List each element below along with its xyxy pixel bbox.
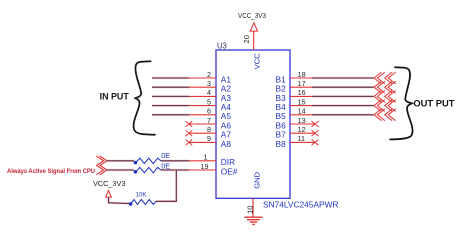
svg-text:14: 14 (298, 107, 306, 116)
pin 17 (B2) stub (276, 79, 313, 94)
wire net to B1 (312, 77, 374, 79)
brace grouping output nets (390, 67, 412, 139)
svg-text:19: 19 (201, 162, 209, 171)
wire 0E resistor to pin (OE#) (161, 169, 189, 171)
svg-text:6: 6 (207, 107, 211, 116)
pin 1 (DIR) stub (189, 153, 236, 168)
svg-text:15: 15 (298, 97, 306, 106)
pin 5 (A4) stub (189, 97, 232, 112)
label IN PUT (100, 92, 129, 103)
pin 4 (A3) stub (189, 88, 232, 103)
pin 15 (B4) stub (276, 97, 313, 112)
wire net to B2 (312, 86, 374, 88)
svg-text:7: 7 (207, 116, 211, 125)
svg-text:VCC_3V3: VCC_3V3 (93, 179, 125, 188)
wire chevron to 0E resistor (OE#) (107, 169, 134, 171)
wire net to A2 (152, 86, 189, 88)
power symbol VCC_3V3 (top) (238, 11, 266, 31)
svg-text:Always Active Signal From CPU: Always Active Signal From CPU (7, 168, 95, 175)
svg-text:11: 11 (298, 134, 305, 143)
svg-text:10K: 10K (136, 191, 147, 198)
wire net to A1 (152, 77, 189, 79)
wire net to B3 (312, 95, 374, 97)
wire 0E resistor to pin (DIR) (161, 160, 189, 162)
label OUT PUT (413, 99, 454, 110)
svg-text:5: 5 (207, 97, 211, 106)
ground symbol (244, 217, 262, 224)
part number SN74LVC245APWR (263, 199, 339, 209)
resistor 10K (pull-up) (129, 191, 156, 205)
svg-text:13: 13 (298, 116, 306, 125)
wire 10K to OE# net (156, 170, 176, 201)
svg-text:16: 16 (298, 88, 306, 97)
no-connect X on pin 12 (312, 130, 319, 136)
pin 6 (A5) stub (189, 107, 232, 122)
svg-text:B8: B8 (276, 139, 287, 149)
pin 7 (A6) stub (189, 116, 231, 131)
svg-text:OUT PUT: OUT PUT (413, 99, 454, 110)
pin 16 (B3) stub (276, 88, 313, 103)
svg-text:9: 9 (207, 134, 211, 143)
svg-text:0E: 0E (161, 151, 170, 160)
no-connect X on pin 13 (312, 121, 319, 127)
bus ripple chevrons (output nets continue) (374, 72, 396, 121)
pin 14 (B5) stub (276, 107, 313, 122)
designator U3 (217, 42, 227, 51)
svg-text:17: 17 (298, 79, 306, 88)
resistor 0E (series) (134, 151, 171, 165)
svg-text:10: 10 (245, 206, 254, 214)
svg-text:VCC_3V3: VCC_3V3 (238, 11, 266, 20)
brace grouping input nets (134, 61, 155, 134)
label Always Active Signal From CPU (7, 168, 95, 175)
wire chevron to 0E resistor (DIR) (107, 160, 134, 162)
pin 13 (B6) stub (276, 116, 315, 131)
svg-text:OE#: OE# (221, 166, 238, 176)
svg-text:1: 1 (204, 153, 208, 162)
svg-text:8: 8 (207, 125, 211, 134)
no-connect X on pin 8 (186, 130, 193, 136)
pin 12 (B7) stub (276, 125, 315, 140)
resistor 0E (series) (134, 161, 171, 173)
svg-text:IN PUT: IN PUT (100, 92, 129, 103)
wire net to A5 (152, 114, 189, 116)
no-connect X on pin 11 (312, 140, 319, 146)
wire VCC_3V3 to 10K resistor (109, 197, 130, 203)
pin 3 (A2) stub (189, 79, 232, 94)
svg-text:3: 3 (207, 79, 211, 88)
pin 19 (OE#) stub (189, 162, 238, 177)
pin 11 (B8) stub (276, 134, 315, 149)
pin 2 (A1) stub (189, 70, 232, 85)
svg-text:2: 2 (207, 70, 211, 79)
svg-text:A8: A8 (221, 139, 232, 149)
svg-text:20: 20 (242, 35, 251, 43)
wire net to A3 (152, 95, 189, 97)
svg-text:VCC: VCC (253, 53, 262, 70)
pin 9 (A8) stub (189, 134, 231, 149)
svg-text:18: 18 (298, 70, 306, 79)
svg-text:0E: 0E (161, 161, 170, 170)
pin 10 (GND) stub (245, 171, 261, 216)
wire net to A4 (152, 104, 189, 106)
power symbol VCC_3V3 (pull-up supply) (93, 179, 125, 197)
svg-text:SN74LVC245APWR: SN74LVC245APWR (263, 199, 339, 209)
harness chevrons (always-active signals from CPU) (96, 156, 107, 175)
svg-text:4: 4 (207, 88, 211, 97)
no-connect X on pin 7 (186, 121, 193, 127)
wire net to B4 (312, 104, 374, 106)
IC U3 body (SN74LVC245APWR bus transceiver) (216, 50, 290, 198)
pin 8 (A7) stub (189, 125, 231, 140)
svg-text:12: 12 (298, 125, 306, 134)
svg-text:U3: U3 (217, 42, 227, 51)
pin 20 (VCC) stub (242, 31, 262, 69)
svg-text:GND: GND (253, 171, 262, 188)
no-connect X on pin 9 (186, 140, 193, 146)
wire net to B5 (312, 114, 374, 116)
pin 18 (B1) stub (276, 70, 313, 85)
